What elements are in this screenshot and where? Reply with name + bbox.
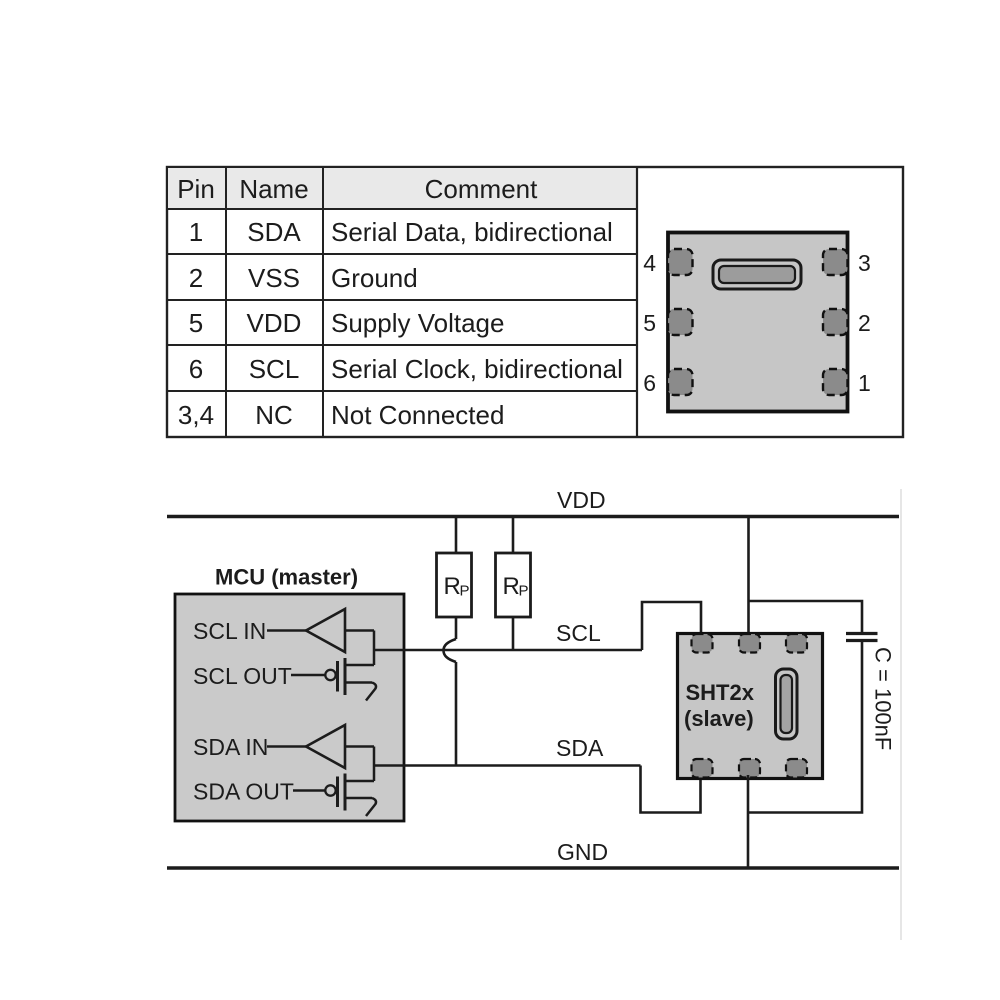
faint page edge line <box>900 489 902 940</box>
svg-text:Pin: Pin <box>177 174 215 204</box>
wire VDD to resistor R2 <box>512 517 515 554</box>
wire junction vertical (SCL) <box>373 631 376 666</box>
transistor Q1 drain wire <box>345 664 374 667</box>
svg-text:5: 5 <box>189 308 203 338</box>
transistor Q1 gate bar <box>336 661 339 692</box>
package pad pin 4 <box>668 249 693 275</box>
package pad pin 6 <box>668 369 693 395</box>
MCU (master) box <box>175 594 404 821</box>
package pad pin 1 <box>823 369 848 395</box>
package pad pin 2 <box>823 309 848 335</box>
SHT2x pad VDD (top-middle) <box>739 634 760 653</box>
wire SHT2x VSS to GND <box>747 775 750 868</box>
transistor Q2 drain wire <box>345 780 374 783</box>
svg-text:Name: Name <box>239 174 308 204</box>
svg-text:(slave): (slave) <box>684 706 754 731</box>
wire R1 down to hop <box>455 617 458 639</box>
svg-text:4: 4 <box>643 250 656 276</box>
resistor R1 (pull-up Rp) <box>437 553 472 617</box>
svg-text:MCU (master): MCU (master) <box>215 565 358 590</box>
svg-text:6: 6 <box>643 370 656 396</box>
table row line 4 <box>167 390 637 392</box>
wire buffer base to junction <box>345 745 374 748</box>
svg-text:6: 6 <box>189 354 203 384</box>
buffer U2 (SCL input, triangle) <box>306 609 345 652</box>
svg-text:SDA: SDA <box>247 217 301 247</box>
svg-text:3,4: 3,4 <box>178 400 214 430</box>
transistor Q2 channel bar <box>344 774 347 811</box>
svg-text:3: 3 <box>858 250 871 276</box>
svg-text:R: R <box>444 573 461 600</box>
table row line 1 <box>167 253 637 255</box>
svg-text:VSS: VSS <box>248 263 300 293</box>
pin table outer frame <box>167 167 903 437</box>
svg-text:R: R <box>503 573 520 600</box>
transistor Q2 source tail <box>366 798 376 816</box>
table column line Comment|package <box>636 167 638 437</box>
svg-text:SDA OUT: SDA OUT <box>193 779 294 805</box>
SHT2x pad SDA (bottom-left) <box>692 759 713 778</box>
svg-text:P: P <box>460 583 470 600</box>
transistor Q1 source tail <box>366 683 376 701</box>
VDD rail <box>167 515 899 519</box>
capacitor C1 top plate <box>846 632 878 635</box>
wire junction vertical (SDA) <box>373 747 376 782</box>
svg-text:Comment: Comment <box>425 174 538 204</box>
svg-text:VDD: VDD <box>557 487 606 513</box>
svg-text:GND: GND <box>557 839 608 865</box>
wire VDD to SHT2x pin 5 <box>747 517 750 638</box>
table row line under header <box>167 208 637 210</box>
SHT2x pad VSS (bottom-middle) <box>739 759 760 778</box>
wire buffer base to junction <box>345 629 374 632</box>
svg-text:SCL OUT: SCL OUT <box>193 663 292 689</box>
wire SDA IN to buffer <box>267 745 306 748</box>
SHT2x pad SCL (top-left) <box>692 634 713 653</box>
transistor Q1 channel bar <box>344 658 347 695</box>
wire VDD to resistor R1 <box>455 517 458 554</box>
wire SCL IN to buffer <box>267 629 306 632</box>
SDA bus wire <box>374 764 641 767</box>
SHT2x slot marking <box>776 669 798 739</box>
buffer U3 (SDA input, triangle) <box>306 725 345 768</box>
svg-text:1: 1 <box>858 370 871 396</box>
svg-text:1: 1 <box>189 217 203 247</box>
wire hop over SCL <box>444 639 457 662</box>
svg-text:SCL: SCL <box>556 620 601 646</box>
svg-text:2: 2 <box>189 263 203 293</box>
SHT2x pad NC (top-right) <box>786 634 807 653</box>
package pad pin 5 <box>668 309 693 335</box>
svg-text:2: 2 <box>858 310 871 336</box>
resistor R2 (pull-up Rp) <box>496 553 531 617</box>
transistor Q2 source wire <box>345 797 372 800</box>
table row line 3 <box>167 344 637 346</box>
svg-text:5: 5 <box>643 310 656 336</box>
svg-text:C = 100nF: C = 100nF <box>871 647 896 750</box>
svg-text:Not Connected: Not Connected <box>331 400 504 430</box>
capacitor C1 bottom plate <box>846 639 878 642</box>
svg-text:Ground: Ground <box>331 263 418 293</box>
svg-text:SCL: SCL <box>249 354 300 384</box>
transistor Q1 gate circle <box>325 670 335 680</box>
svg-text:SDA: SDA <box>556 735 604 761</box>
svg-text:VDD: VDD <box>247 308 302 338</box>
svg-text:Serial Data, bidirectional: Serial Data, bidirectional <box>331 217 613 247</box>
package pad pin 3 <box>823 249 848 275</box>
wire R2 to SCL line <box>512 617 515 651</box>
svg-text:Supply Voltage: Supply Voltage <box>331 308 504 338</box>
table column line Name|Comment <box>322 167 324 437</box>
SHT2x pad NC (bottom-right) <box>786 759 807 778</box>
wire VDD branch to capacitor <box>749 601 863 634</box>
svg-text:Serial Clock, bidirectional: Serial Clock, bidirectional <box>331 354 623 384</box>
wire capacitor to GND horizontal <box>748 641 862 813</box>
SHT2x U4 body <box>678 634 823 779</box>
transistor Q1 source wire <box>345 681 372 684</box>
svg-text:SDA IN: SDA IN <box>193 734 268 760</box>
package slot (die marking) <box>713 260 801 289</box>
wire SCL OUT to gate circle <box>291 674 325 677</box>
table header background <box>168 168 636 209</box>
svg-text:NC: NC <box>255 400 293 430</box>
SDA wire dropper <box>641 766 701 813</box>
SCL bus wire <box>374 649 642 652</box>
package U1 body (top view) <box>668 233 848 412</box>
SCL wire riser <box>642 602 701 650</box>
svg-text:SHT2x: SHT2x <box>686 680 755 705</box>
table row line 2 <box>167 299 637 301</box>
transistor Q2 gate bar <box>336 777 339 808</box>
svg-text:SCL IN: SCL IN <box>193 618 266 644</box>
svg-text:P: P <box>519 583 529 600</box>
GND rail <box>167 866 899 870</box>
wire SDA OUT to gate circle <box>293 789 325 792</box>
wire R1 to SDA line <box>455 662 458 766</box>
table column line Pin|Name <box>225 167 227 437</box>
transistor Q2 gate circle <box>325 785 335 795</box>
